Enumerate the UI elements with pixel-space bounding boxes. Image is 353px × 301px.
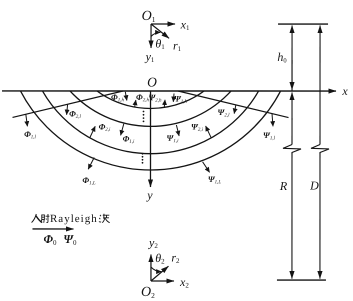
svg-text:Φ1,L: Φ1,L — [82, 175, 95, 186]
svg-text:Ψ1,i: Ψ1,i — [167, 133, 180, 144]
arrow psi2l down right band2 — [234, 105, 236, 114]
incident wave text: she (Chinese char) — [41, 214, 50, 223]
svg-text:Ψ1,h: Ψ1,h — [174, 93, 188, 104]
D dimension lower — [319, 153, 321, 279]
arrow phi1L bottom left — [88, 157, 94, 169]
svg-text:y1: y1 — [145, 49, 155, 64]
incident wave text: bo (Chinese char) — [99, 214, 110, 223]
svg-text:Φ1,i: Φ1,i — [123, 133, 135, 144]
svg-text:h0: h0 — [277, 50, 286, 65]
svg-text:O2: O2 — [141, 285, 155, 300]
svg-text:r2: r2 — [171, 250, 180, 265]
wavefront arc 3 — [26, 0, 275, 154]
O1 r1 ray — [151, 24, 169, 38]
arrow phi1i down from arc2 — [121, 124, 124, 136]
R dimension line upper segment with up arrow to surface — [291, 93, 293, 121]
R dimension lower segment with down arrow — [291, 153, 293, 279]
svg-text:Φ0: Φ0 — [43, 232, 56, 247]
arrow phi2i up-right inward — [90, 126, 95, 138]
svg-text:θ1: θ1 — [155, 36, 165, 51]
wavefront arc 4 — [4, 0, 297, 170]
svg-text:Ψ1,l: Ψ1,l — [263, 130, 276, 141]
break symbol left — [283, 145, 301, 154]
arrow psi2h up — [163, 100, 166, 108]
O1 coordinate system: x1 axis — [151, 23, 175, 25]
svg-text:O: O — [147, 74, 157, 89]
svg-text:Φ2,i: Φ2,i — [99, 121, 111, 132]
svg-text:Ψ2,h: Ψ2,h — [148, 92, 162, 103]
svg-text:Φ2,l: Φ2,l — [69, 108, 81, 119]
incident arrow — [32, 228, 73, 230]
svg-text:Ψ0: Ψ0 — [63, 232, 77, 247]
incident wave text: ru (Chinese char) — [32, 214, 43, 223]
O2 r2 ray — [151, 266, 169, 281]
O1 y1 axis — [150, 24, 152, 48]
y axis — [149, 91, 151, 187]
right ray line — [178, 91, 289, 118]
svg-text:D: D — [309, 179, 319, 193]
break symbol right — [311, 145, 329, 154]
arrow phi2h up — [135, 100, 136, 108]
svg-text:Ψ2,l: Ψ2,l — [218, 107, 231, 118]
surface x-axis — [2, 90, 336, 92]
arrow psi1l far right down — [272, 114, 273, 127]
arrow phi1h down — [125, 92, 127, 101]
wavefront arc 1 — [4, 0, 297, 170]
svg-text:Ψ1,L: Ψ1,L — [208, 174, 222, 185]
svg-text:Φ1,l: Φ1,l — [24, 129, 36, 140]
dimension top bar — [278, 23, 328, 25]
arrow psi1i down from arc2 — [176, 125, 179, 136]
arrow psi1L bottom right — [203, 162, 210, 173]
arrow psi1h down — [172, 93, 175, 101]
svg-text:R: R — [279, 179, 288, 193]
dimension bottom bar — [277, 279, 326, 281]
h0 dimension line — [291, 26, 293, 92]
D dimension line upper — [319, 26, 321, 145]
svg-text:Ψ2,i: Ψ2,i — [191, 122, 204, 133]
O2 y2 axis — [150, 254, 152, 281]
svg-text:Φ2,h: Φ2,h — [136, 92, 149, 103]
theta1 arc — [151, 32, 160, 36]
arrow psi2i up-left inward — [206, 126, 212, 138]
svg-text:y: y — [146, 188, 153, 202]
svg-text:y2: y2 — [148, 235, 158, 250]
svg-text:x1: x1 — [180, 18, 190, 33]
wavefront arc 2 — [41, 0, 259, 126]
svg-text:θ2: θ2 — [155, 251, 165, 266]
svg-text:Rayleigh: Rayleigh — [50, 213, 98, 225]
svg-text:Φ1,h: Φ1,h — [111, 92, 124, 103]
O2 coordinate system: x2 axis — [151, 280, 174, 282]
theta2 arc — [151, 267, 161, 272]
arrow phi1l far left down — [26, 114, 28, 126]
svg-text:x: x — [341, 84, 348, 98]
svg-text:r1: r1 — [173, 38, 182, 53]
ellipsis dots upper — [143, 111, 145, 123]
arrow phi2l down left band2 — [67, 104, 68, 115]
ellipsis dots lower — [142, 153, 144, 164]
svg-text:x2: x2 — [179, 275, 189, 290]
svg-text:O1: O1 — [142, 9, 156, 24]
left ray line — [13, 91, 124, 118]
